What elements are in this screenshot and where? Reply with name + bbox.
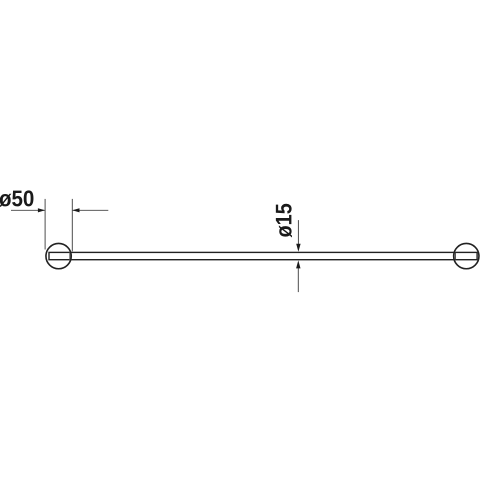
ø50 right extension line [71,199,73,251]
ø15 upper dimension line [297,220,299,244]
ø50 dimension line left tail [11,209,45,211]
left bar-to-post seam [69,252,71,259]
towel bar outline [49,252,477,259]
left post circle [46,243,71,268]
ø15 upper arrowhead (pointing down) [296,244,300,252]
ø50 dimension line right tail [73,209,109,211]
ø15 lower arrowhead (pointing up) [296,260,300,268]
right bar-to-post seam [454,252,456,259]
ø15 lower dimension line [297,268,299,292]
right post circle [454,243,479,268]
ø50 left extension line [44,199,46,250]
dimension label ø50 [0,190,33,206]
dimension label ø15 (rotated) [276,204,292,238]
ø50 right arrowhead [72,208,79,212]
ø50 left arrowhead [38,208,45,212]
